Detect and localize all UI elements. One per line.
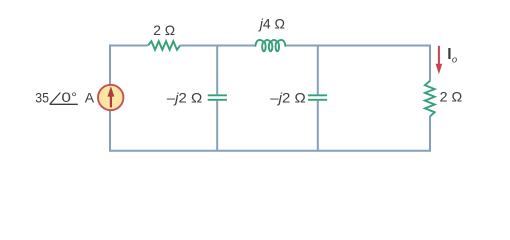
wire left branch upper <box>109 45 111 86</box>
svg-text:A: A <box>85 89 95 105</box>
capacitor C2 bottom plate <box>308 99 327 101</box>
wire top segment middle (R to L) <box>180 45 254 47</box>
svg-text:2 Ω: 2 Ω <box>440 89 463 105</box>
phasor angle symbol diagonal <box>50 93 61 105</box>
wire top segment right (L to right branch) <box>286 45 430 47</box>
current source arrow head <box>108 86 115 96</box>
wire capacitor C2 upper lead <box>317 46 319 95</box>
wire right branch lower <box>429 116 431 150</box>
svg-text:j4 Ω: j4 Ω <box>258 16 285 32</box>
svg-text:o: o <box>452 54 457 65</box>
svg-text:–j2 Ω: –j2 Ω <box>167 90 203 106</box>
wire capacitor C1 upper lead <box>216 46 218 95</box>
capacitor C1 bottom plate <box>208 99 227 101</box>
current Io arrow shaft <box>438 46 440 65</box>
wire bottom rail <box>109 150 431 152</box>
wire right branch upper <box>429 45 431 82</box>
current Io arrow head <box>436 64 443 74</box>
wire capacitor C2 lower lead <box>317 101 319 151</box>
phasor angle symbol underline <box>50 103 78 105</box>
capacitor C1 top plate <box>208 94 227 96</box>
inductor j4ohm coil <box>255 40 285 51</box>
capacitor C2 top plate <box>308 94 327 96</box>
wire left branch lower <box>109 110 111 151</box>
current source circle <box>98 85 123 110</box>
resistor 2ohm right zigzag <box>425 81 435 117</box>
current source arrow shaft <box>110 96 112 108</box>
svg-text:2 Ω: 2 Ω <box>153 22 175 38</box>
wire top segment left (source to R) <box>109 45 148 47</box>
svg-text:35: 35 <box>35 89 49 105</box>
svg-text:°: ° <box>71 89 77 105</box>
svg-text:0: 0 <box>61 89 71 105</box>
wire capacitor C1 lower lead <box>216 101 218 151</box>
resistor 2ohm top zigzag <box>148 41 180 50</box>
svg-text:–j2 Ω: –j2 Ω <box>270 90 306 106</box>
